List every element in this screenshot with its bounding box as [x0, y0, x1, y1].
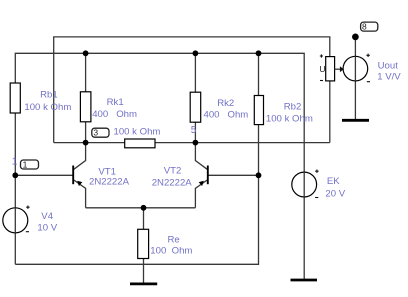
resistor Rb1: [10, 83, 20, 113]
svg-text:5: 5: [191, 125, 197, 136]
svg-text:1: 1: [23, 160, 28, 170]
svg-text:2N2222A: 2N2222A: [89, 177, 130, 188]
svg-text:Rb2: Rb2: [284, 102, 302, 113]
junction rail-Rk1: [83, 50, 89, 56]
resistor Re: [138, 229, 149, 258]
dependent source Uout 1V/V: [343, 54, 370, 82]
svg-text:U: U: [319, 64, 325, 74]
wire Re bottom to ground: [143, 259, 145, 284]
wire node8 terminal to Uout top: [354, 37, 356, 56]
wire bottom rail: [15, 175, 258, 264]
svg-text:Rk1: Rk1: [107, 97, 124, 108]
svg-text:VT2: VT2: [164, 166, 182, 177]
junction emitter bus - Re: [141, 205, 147, 211]
label EK: [325, 176, 345, 199]
terminal node8: [352, 34, 359, 41]
svg-text:EK: EK: [327, 176, 340, 187]
voltage sensor U of dependent source: [319, 54, 343, 80]
ground under Uout: [342, 119, 369, 122]
connector box 8: [361, 22, 378, 32]
svg-text:1: 1: [12, 157, 18, 168]
svg-text:400 Ohm: 400 Ohm: [204, 110, 249, 121]
connector box 3: [92, 128, 109, 138]
source V4 10V: [3, 206, 30, 233]
resistor R 100k horizontal node3-node5: [125, 139, 155, 148]
wire Re stem: [143, 208, 145, 230]
wire Rk2 bottom to node5: [194, 122, 196, 142]
junction VT2 base - Rb2: [256, 172, 262, 178]
svg-text:Uout: Uout: [378, 60, 399, 71]
svg-text:2N2222A: 2N2222A: [152, 177, 193, 188]
resistor Rk2: [190, 92, 201, 122]
wire Rk1 bottom to node3: [85, 122, 87, 143]
svg-text:20 V: 20 V: [325, 188, 345, 199]
label Rk1: [92, 97, 137, 120]
junction node1 VT1 base: [12, 172, 18, 178]
wire VT1 collector riser: [74, 143, 86, 170]
transistor Q VT1 2N2222A: [73, 166, 82, 187]
junction rail-Rk2: [193, 50, 199, 56]
svg-text:1 V/V: 1 V/V: [377, 71, 401, 82]
svg-text:VT1: VT1: [98, 166, 116, 177]
wire VT2 collector riser: [195, 143, 207, 170]
wire EK bottom to ground: [303, 197, 305, 279]
junction node5: [193, 140, 199, 146]
resistor Rb2: [254, 96, 263, 125]
connector box 1: [21, 160, 39, 170]
svg-text:Re: Re: [168, 234, 180, 245]
label VT1: [89, 166, 130, 187]
svg-text:Rk2: Rk2: [217, 98, 234, 109]
source EK 20V: [292, 170, 319, 198]
wire VT1 emitter drop: [74, 180, 86, 208]
wire Rk2 stem from rail: [194, 53, 196, 92]
wire emitter bus: [86, 207, 196, 209]
svg-text:Rb1: Rb1: [40, 89, 58, 100]
svg-text:100 k Ohm: 100 k Ohm: [24, 102, 71, 113]
label V4: [37, 211, 57, 234]
label Re: [150, 234, 192, 256]
wire Uout bottom to ground: [354, 81, 356, 120]
wire U- sensor drop to node5 line: [329, 81, 331, 143]
label Uout: [377, 60, 401, 82]
wire Rb2 bottom to VT2 base node: [258, 125, 260, 176]
ground under EK: [291, 279, 318, 282]
label Rk2: [204, 98, 249, 120]
node label 5 blue: [191, 125, 197, 136]
transistor Q VT2 2N2222A: [199, 166, 208, 187]
wire positive supply rail y=53: [15, 53, 304, 172]
svg-text:100 k Ohm: 100 k Ohm: [114, 127, 161, 138]
wire top line node3 to U+ sensor: [54, 37, 330, 143]
svg-text:10 V: 10 V: [37, 223, 57, 234]
wire Rk1 stem from rail: [85, 53, 87, 92]
wire VT1 base: [15, 174, 72, 176]
svg-text:100 Ohm: 100 Ohm: [150, 245, 192, 256]
resistor Rk1: [80, 92, 91, 122]
ground under Re: [130, 282, 157, 285]
svg-text:100 k Ohm: 100 k Ohm: [266, 113, 313, 124]
wire VT2 emitter drop: [195, 180, 207, 208]
node label 1 blue: [12, 157, 18, 168]
wire VT2 base: [208, 174, 259, 176]
label Rb1: [24, 89, 71, 113]
junction rail-Rb2: [256, 50, 262, 56]
svg-text:8: 8: [362, 22, 367, 32]
svg-text:V4: V4: [41, 211, 53, 222]
label VT2: [152, 166, 193, 189]
wire Rb1 bottom to V4 top: [14, 113, 16, 208]
label R 100k horizontal: [114, 127, 161, 138]
wire node3/node5 horizontal line y=142.6: [54, 142, 330, 144]
svg-text:400 Ohm: 400 Ohm: [92, 109, 137, 120]
junction node3: [83, 140, 89, 146]
wire V4 bottom to bottom rail: [14, 233, 16, 264]
wire Rb2 stem from rail: [258, 53, 260, 95]
label Rb2: [266, 102, 313, 125]
svg-text:3: 3: [93, 128, 98, 138]
